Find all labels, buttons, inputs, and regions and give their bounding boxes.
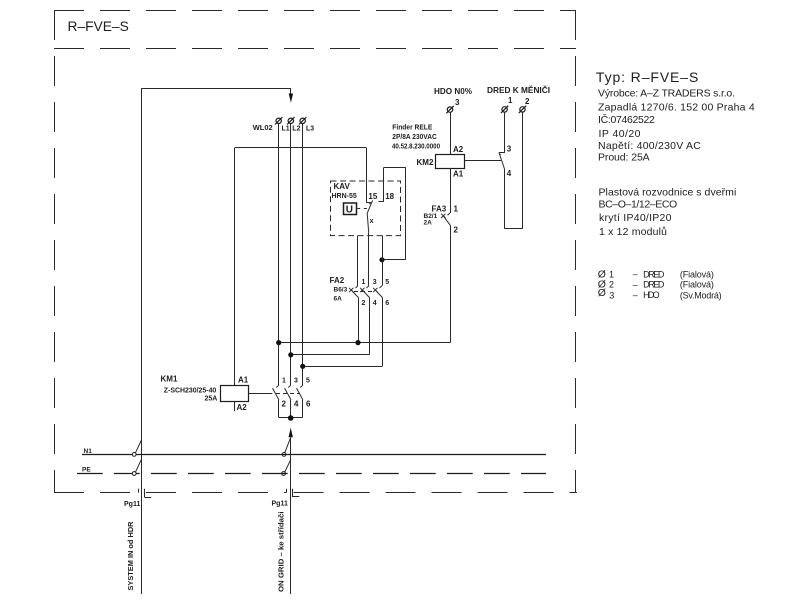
svg-text:ON GRID – ke střídači: ON GRID – ke střídači [279, 511, 286, 592]
svg-text:2: 2 [525, 97, 530, 106]
svg-text:R–FVE–S: R–FVE–S [68, 18, 129, 34]
svg-text:A2: A2 [237, 403, 248, 412]
svg-text:4: 4 [373, 300, 377, 307]
svg-text:3: 3 [609, 290, 614, 300]
svg-text:Výrobce: A–Z TRADERS s.r.o.: Výrobce: A–Z TRADERS s.r.o. [598, 88, 735, 100]
svg-text:(Fialová): (Fialová) [680, 280, 714, 290]
svg-text:1: 1 [508, 96, 513, 105]
svg-text:Napětí: 400/230V AC: Napětí: 400/230V AC [598, 140, 701, 152]
svg-text:2: 2 [609, 280, 614, 290]
svg-text:Z-SCH230/25-40: Z-SCH230/25-40 [164, 388, 217, 395]
svg-text:A2: A2 [453, 145, 464, 154]
svg-text:5: 5 [306, 378, 310, 385]
svg-text:x: x [370, 218, 374, 225]
svg-text:1 x 12 modulů: 1 x 12 modulů [599, 226, 667, 238]
svg-text:3: 3 [294, 378, 298, 385]
svg-text:6A: 6A [334, 296, 343, 303]
svg-text:L3: L3 [306, 126, 314, 133]
svg-text:DRED: DRED [643, 280, 665, 290]
svg-text:KAV: KAV [334, 182, 351, 191]
svg-text:L1: L1 [282, 126, 290, 133]
svg-text:3: 3 [507, 145, 512, 154]
svg-text:A1: A1 [238, 376, 249, 385]
svg-text:25A: 25A [205, 396, 218, 403]
svg-text:3: 3 [373, 279, 377, 286]
svg-text:Zapadlá 1270/6. 152 00 Pra: Zapadlá 1270/6. 152 00 Praha 4 [598, 102, 755, 114]
svg-text:PE: PE [82, 467, 91, 474]
svg-text:HDO: HDO [643, 290, 660, 300]
svg-text:A1: A1 [453, 170, 464, 179]
svg-text:Proud: 25A: Proud: 25A [598, 151, 650, 163]
svg-text:(Fialová): (Fialová) [680, 269, 714, 279]
svg-text:(Sv.Modrá): (Sv.Modrá) [680, 290, 722, 300]
svg-text:IP 40/20: IP 40/20 [599, 128, 641, 140]
svg-text:Ø: Ø [598, 287, 606, 299]
svg-text:2: 2 [362, 300, 366, 307]
svg-text:5: 5 [385, 279, 389, 286]
svg-text:4: 4 [294, 400, 299, 409]
svg-text:KM1: KM1 [161, 375, 178, 384]
svg-text:U: U [346, 205, 353, 216]
svg-text:Typ: R–FVE–S: Typ: R–FVE–S [596, 69, 698, 85]
svg-text:1: 1 [282, 378, 286, 385]
svg-text:DRED K MĚNIČI: DRED K MĚNIČI [487, 86, 550, 95]
svg-text:2: 2 [454, 226, 459, 235]
svg-text:Plastová rozvodnice s dveřm: Plastová rozvodnice s dveřmi [599, 187, 737, 199]
svg-text:WL02: WL02 [253, 125, 273, 132]
svg-text:L2: L2 [292, 126, 300, 133]
svg-text:–: – [633, 269, 638, 279]
svg-text:HDO N0%: HDO N0% [434, 87, 472, 96]
svg-text:krytí IP40/IP20: krytí IP40/IP20 [599, 212, 672, 224]
svg-text:6: 6 [306, 400, 311, 409]
svg-text:Finder RELE: Finder RELE [392, 125, 432, 132]
svg-text:3: 3 [455, 98, 460, 107]
svg-text:DRED: DRED [643, 269, 665, 279]
svg-text:4: 4 [507, 169, 512, 178]
svg-text:BC–O–1/12–ECO: BC–O–1/12–ECO [599, 199, 678, 211]
svg-text:40.52.8.230.0000: 40.52.8.230.0000 [392, 143, 440, 150]
svg-text:FA2: FA2 [330, 276, 345, 285]
svg-text:Pg11: Pg11 [124, 501, 140, 508]
svg-text:HRN-55: HRN-55 [332, 193, 357, 200]
svg-text:1: 1 [454, 205, 459, 214]
svg-text:6: 6 [385, 300, 389, 307]
svg-text:SYSTEM IN od HDR: SYSTEM IN od HDR [128, 522, 135, 591]
svg-text:2A: 2A [424, 220, 433, 227]
svg-text:18: 18 [385, 192, 394, 201]
svg-text:2P/8A 230VAC: 2P/8A 230VAC [392, 134, 437, 141]
svg-text:15: 15 [368, 192, 377, 201]
svg-text:KM2: KM2 [417, 158, 434, 167]
svg-text:IČ:07462522: IČ:07462522 [598, 113, 655, 126]
svg-text:1: 1 [362, 279, 366, 286]
svg-text:Pg11: Pg11 [272, 501, 288, 508]
svg-text:–: – [633, 279, 638, 289]
svg-text:1: 1 [609, 269, 614, 279]
svg-text:–: – [633, 290, 638, 300]
svg-text:2: 2 [282, 400, 287, 409]
svg-text:B6/3: B6/3 [334, 287, 348, 294]
